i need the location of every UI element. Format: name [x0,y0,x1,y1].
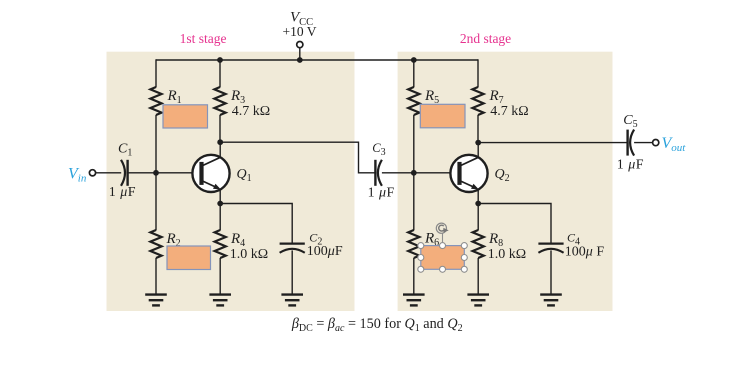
ground (C2) [281,295,303,306]
selection handles on R6 patch [418,243,468,273]
svg-text:100μF: 100μF [307,244,343,259]
wire: rail down to R7 [477,59,479,87]
junction: rail/R5 [411,57,417,63]
wire: C1 to Q1 base [128,172,202,174]
wire: Q1 emitter to R4 [219,204,221,231]
wire: rail down to R1 [155,59,157,87]
wire: R2 to ground [155,258,157,295]
resistor R8 [473,230,484,258]
svg-text:1.0 kΩ: 1.0 kΩ [230,247,268,262]
svg-text:2nd stage: 2nd stage [460,31,511,46]
svg-text:1 μF: 1 μF [617,157,644,172]
wire: C5 to Vout [634,142,653,144]
wire: Q1 collector to C3 [220,142,375,173]
resistor R6 [408,230,419,258]
wire: R7 bottom to collector node [477,115,479,143]
wire: R8 to ground [477,258,479,295]
junction: VCC on rail [297,57,303,63]
capacitor C2 [280,244,305,253]
input terminal Vin [89,170,95,176]
ground (C4) [540,295,562,306]
2nd stage shaded region [398,52,613,311]
transistor Q1 [192,142,229,203]
junction: rail/R3 [217,57,223,63]
ground (R8) [467,295,489,306]
resistor R3 [214,87,225,115]
wire: base node down to R2 [155,173,157,231]
transistor Q2 [450,142,487,203]
junction: Q2 base / R5-R6 divider [411,170,417,176]
capacitor C3 [375,160,382,186]
junction: Q1 emitter node [217,201,223,207]
junction: Q1 base / R1-R2 divider [153,170,159,176]
wire: R6 to ground [413,258,415,295]
wire: Q1 emitter to C2 [220,204,292,244]
wire: VCC top rail [156,59,478,61]
resistor R2 [150,230,161,258]
wire: R1 bottom to base node [155,115,157,173]
wire: C2 to ground [291,250,293,294]
ground (R6) [403,295,425,306]
junction: Q2 collector node [475,140,481,146]
svg-text:+10 V: +10 V [283,24,317,39]
svg-text:C3: C3 [372,141,385,158]
svg-text:1st stage: 1st stage [180,31,227,46]
capacitor C5 [628,130,635,156]
svg-text:1.0 kΩ: 1.0 kΩ [488,247,526,262]
capacitor C4 [538,244,563,253]
ground (R2) [145,295,167,306]
resistor R1 [150,87,161,115]
svg-text:Vout: Vout [662,135,687,154]
svg-text:100μ F: 100μ F [565,244,605,259]
svg-text:1 μF: 1 μF [109,185,136,200]
wire: VCC stub [299,48,301,60]
wire: R5 bottom to base node [413,115,415,173]
wire: Q2 emitter to C4 [478,204,551,244]
svg-text:4.7 kΩ: 4.7 kΩ [490,104,528,119]
VCC terminal [297,42,303,48]
capacitor C1 [121,160,128,186]
svg-text:C5: C5 [623,113,637,130]
orange patch over R5 value [420,104,465,128]
resistor R4 [215,230,226,258]
wire: R3 bottom to collector node [219,115,221,142]
wire: Vin to C1 [96,172,122,174]
orange patch over R1 value [163,105,208,128]
resistor R7 [472,87,483,115]
rotate handle stem [442,233,444,242]
wire: base node down to R6 [413,173,415,231]
wire: C3 to Q2 base [382,172,460,174]
wire: R5 top [413,60,415,87]
1st stage shaded region [107,52,355,311]
ground (R4) [209,295,231,306]
wire: C4 to ground [550,250,552,294]
orange patch over R2 value [167,246,211,270]
rotate handle icon [436,223,448,233]
wire: R3 top [219,60,221,87]
svg-text:4.7 kΩ: 4.7 kΩ [232,104,270,119]
svg-text:Vin: Vin [68,165,87,184]
junction: Q2 emitter node [475,201,481,207]
wire: Q2 emitter to R8 [477,204,479,231]
resistor R5 [408,87,419,115]
junction: Q1 collector node [217,139,223,145]
wire: R4 to ground [219,258,221,295]
selected orange patch over R6 value [421,246,465,270]
svg-text:1 μF: 1 μF [368,185,395,200]
output terminal Vout [653,140,659,146]
svg-text:βDC = βac = 150 for Q1 and Q2: βDC = βac = 150 for Q1 and Q2 [291,316,463,334]
wire: Q2 collector to C5 [478,142,627,144]
